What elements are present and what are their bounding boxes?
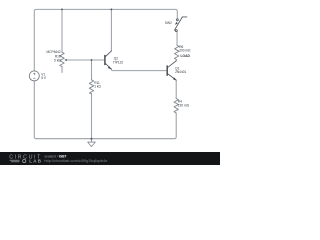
svg-text:MCP4642: MCP4642	[47, 50, 61, 54]
svg-text:200 mΩ: 200 mΩ	[179, 48, 191, 52]
svg-text:LOAD: LOAD	[181, 54, 191, 58]
svg-text:LAB: LAB	[29, 159, 42, 164]
svg-text:2N4401: 2N4401	[175, 70, 186, 74]
svg-text:5 kΩ: 5 kΩ	[54, 59, 61, 63]
svg-text:220 mΩ: 220 mΩ	[178, 103, 190, 107]
svg-text:TIP122: TIP122	[113, 61, 124, 65]
svg-text:1 kΩ: 1 kΩ	[94, 85, 101, 89]
svg-text:SW2: SW2	[165, 21, 172, 25]
svg-text:http://circuitlab.com/c/59g7kq: http://circuitlab.com/c/59g7kq6qvb4e	[44, 159, 107, 163]
